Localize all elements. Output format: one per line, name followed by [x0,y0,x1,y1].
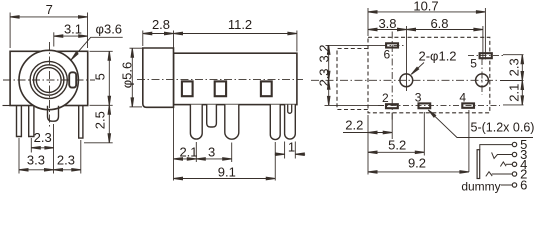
pin P1 front [17,106,22,137]
hole H1 [400,74,413,87]
svg-text:5-(1.2x 0.6): 5-(1.2x 0.6) [471,121,534,135]
contact ring n1 [182,81,193,96]
pad 2 [386,104,398,108]
terminal circle 6 [512,183,516,187]
leg L1 [190,105,202,140]
dimension 5.2 [368,112,424,156]
leg L5 inner slot [288,105,292,114]
svg-text:9.2: 9.2 [408,155,426,170]
svg-text:3.3: 3.3 [27,152,45,167]
centerline vertical front view [49,42,51,127]
pad 5 row line [468,55,503,57]
centerline side view [137,79,303,81]
centerline bottom view horizontal [311,79,497,81]
ext line 10.7/3.8 left [367,8,369,36]
right dim column 2.3/2.1 [500,55,524,105]
contact ring n3 [261,81,272,96]
dimension 2.8 / 11.2 [143,31,297,52]
wire pin 5 [480,145,513,150]
terminal circle 5 [512,142,516,146]
svg-text:7: 7 [46,2,53,17]
svg-text:2.8: 2.8 [152,17,170,32]
svg-text:2: 2 [382,91,389,105]
bottom edge overshoot [3,105,11,107]
svg-text:3.8: 3.8 [378,16,396,31]
dimension 9.2 [368,110,469,172]
svg-text:11.2: 11.2 [228,17,252,32]
svg-text:5: 5 [93,73,108,80]
dimension 3.3 / 2.3 bottom [19,124,81,174]
vertical centerline hole 1 [406,26,408,91]
vertical centerline hole 2 [481,58,483,95]
svg-text:3: 3 [415,90,422,104]
svg-text:2-φ1.2: 2-φ1.2 [418,49,456,64]
pad row 6 line [326,44,382,46]
side body [174,53,297,104]
pad 4 [462,103,474,107]
pad row 2,3,4 line [325,104,385,106]
ring circle [30,61,67,98]
svg-text:5: 5 [470,57,477,71]
dimension 7 [10,13,87,49]
leader phi3.6 [71,37,123,60]
ext line 6.8 right [482,26,484,60]
body front view [10,51,88,105]
dimension 2.3 front top [31,138,54,153]
dimension 2.2 [343,113,392,175]
dimension 2.1 / 3 [174,107,232,181]
hole circle phi3.6 [34,65,64,95]
centerline horizontal front view [3,79,95,81]
dimension 10.7 [368,11,485,13]
pad 3 [419,103,431,108]
svg-text:dummy: dummy [461,179,500,193]
pad 5 [480,53,492,58]
hole inner chamfer circle [36,68,61,93]
dimension 5 right [90,51,113,105]
terminal circle 4 [512,162,516,166]
dimension 2.5 right [84,105,113,143]
svg-text:φ5.6: φ5.6 [120,62,135,89]
pad 6 [386,43,398,47]
side barrel [143,48,174,107]
center pin front [48,106,59,121]
hole H2 [476,74,489,87]
pin P4 front [79,106,83,139]
leg L5 outer [285,105,296,139]
svg-text:φ3.6: φ3.6 [96,21,123,36]
leg L2 short [207,105,217,127]
sleeve bar [477,150,480,179]
svg-text:3.2: 3.2 [316,44,331,62]
leg L3 [225,105,239,140]
svg-text:2.1: 2.1 [506,84,521,102]
svg-text:2.3: 2.3 [316,68,331,86]
dimension 9.1 [174,142,276,181]
leader 2-phi1.2 [411,63,424,75]
contact slot [69,72,76,87]
ext line 10.7 right [484,8,486,60]
vertical centerline pads 6-2 column [391,32,393,121]
barrel outline dashed [337,49,368,110]
pin P2 front [29,106,34,137]
dimension 3.1 [54,32,88,46]
leg L4 [270,105,280,140]
svg-text:4: 4 [459,91,466,105]
svg-text:2.1: 2.1 [179,144,197,159]
svg-text:6.8: 6.8 [430,16,448,31]
left dim column 3.2/2.3 [328,45,330,105]
dimension 1 [275,142,305,159]
barrel outer circle [19,50,78,109]
svg-text:9.1: 9.1 [218,165,236,180]
svg-text:10.7: 10.7 [413,0,438,13]
svg-text:2.2: 2.2 [345,118,363,133]
wire pin 4 lever [500,162,506,167]
main outline dashed rect [368,37,490,113]
svg-text:5.2: 5.2 [388,138,406,153]
svg-text:3: 3 [208,144,215,159]
dimension phi5.6 [130,48,143,107]
contact ring n2 [215,81,226,96]
svg-text:2.3: 2.3 [34,130,52,145]
wire pin 3 spring [492,152,513,158]
svg-text:2.5: 2.5 [93,111,108,129]
svg-text:6: 6 [520,178,527,193]
svg-text:3.1: 3.1 [64,22,82,37]
leader 5-(1.2x0.6) [428,110,533,138]
svg-text:2.3: 2.3 [506,58,521,76]
wire pin 2 lever [486,172,492,177]
terminal circle 2 [512,172,516,176]
dimension 3.8 / 6.8 [368,29,483,31]
svg-text:2.3: 2.3 [57,152,75,167]
wire pin 6 dummy [501,184,513,186]
terminal circle 3 [512,152,516,156]
svg-text:1: 1 [288,140,295,155]
svg-text:6: 6 [384,48,391,62]
